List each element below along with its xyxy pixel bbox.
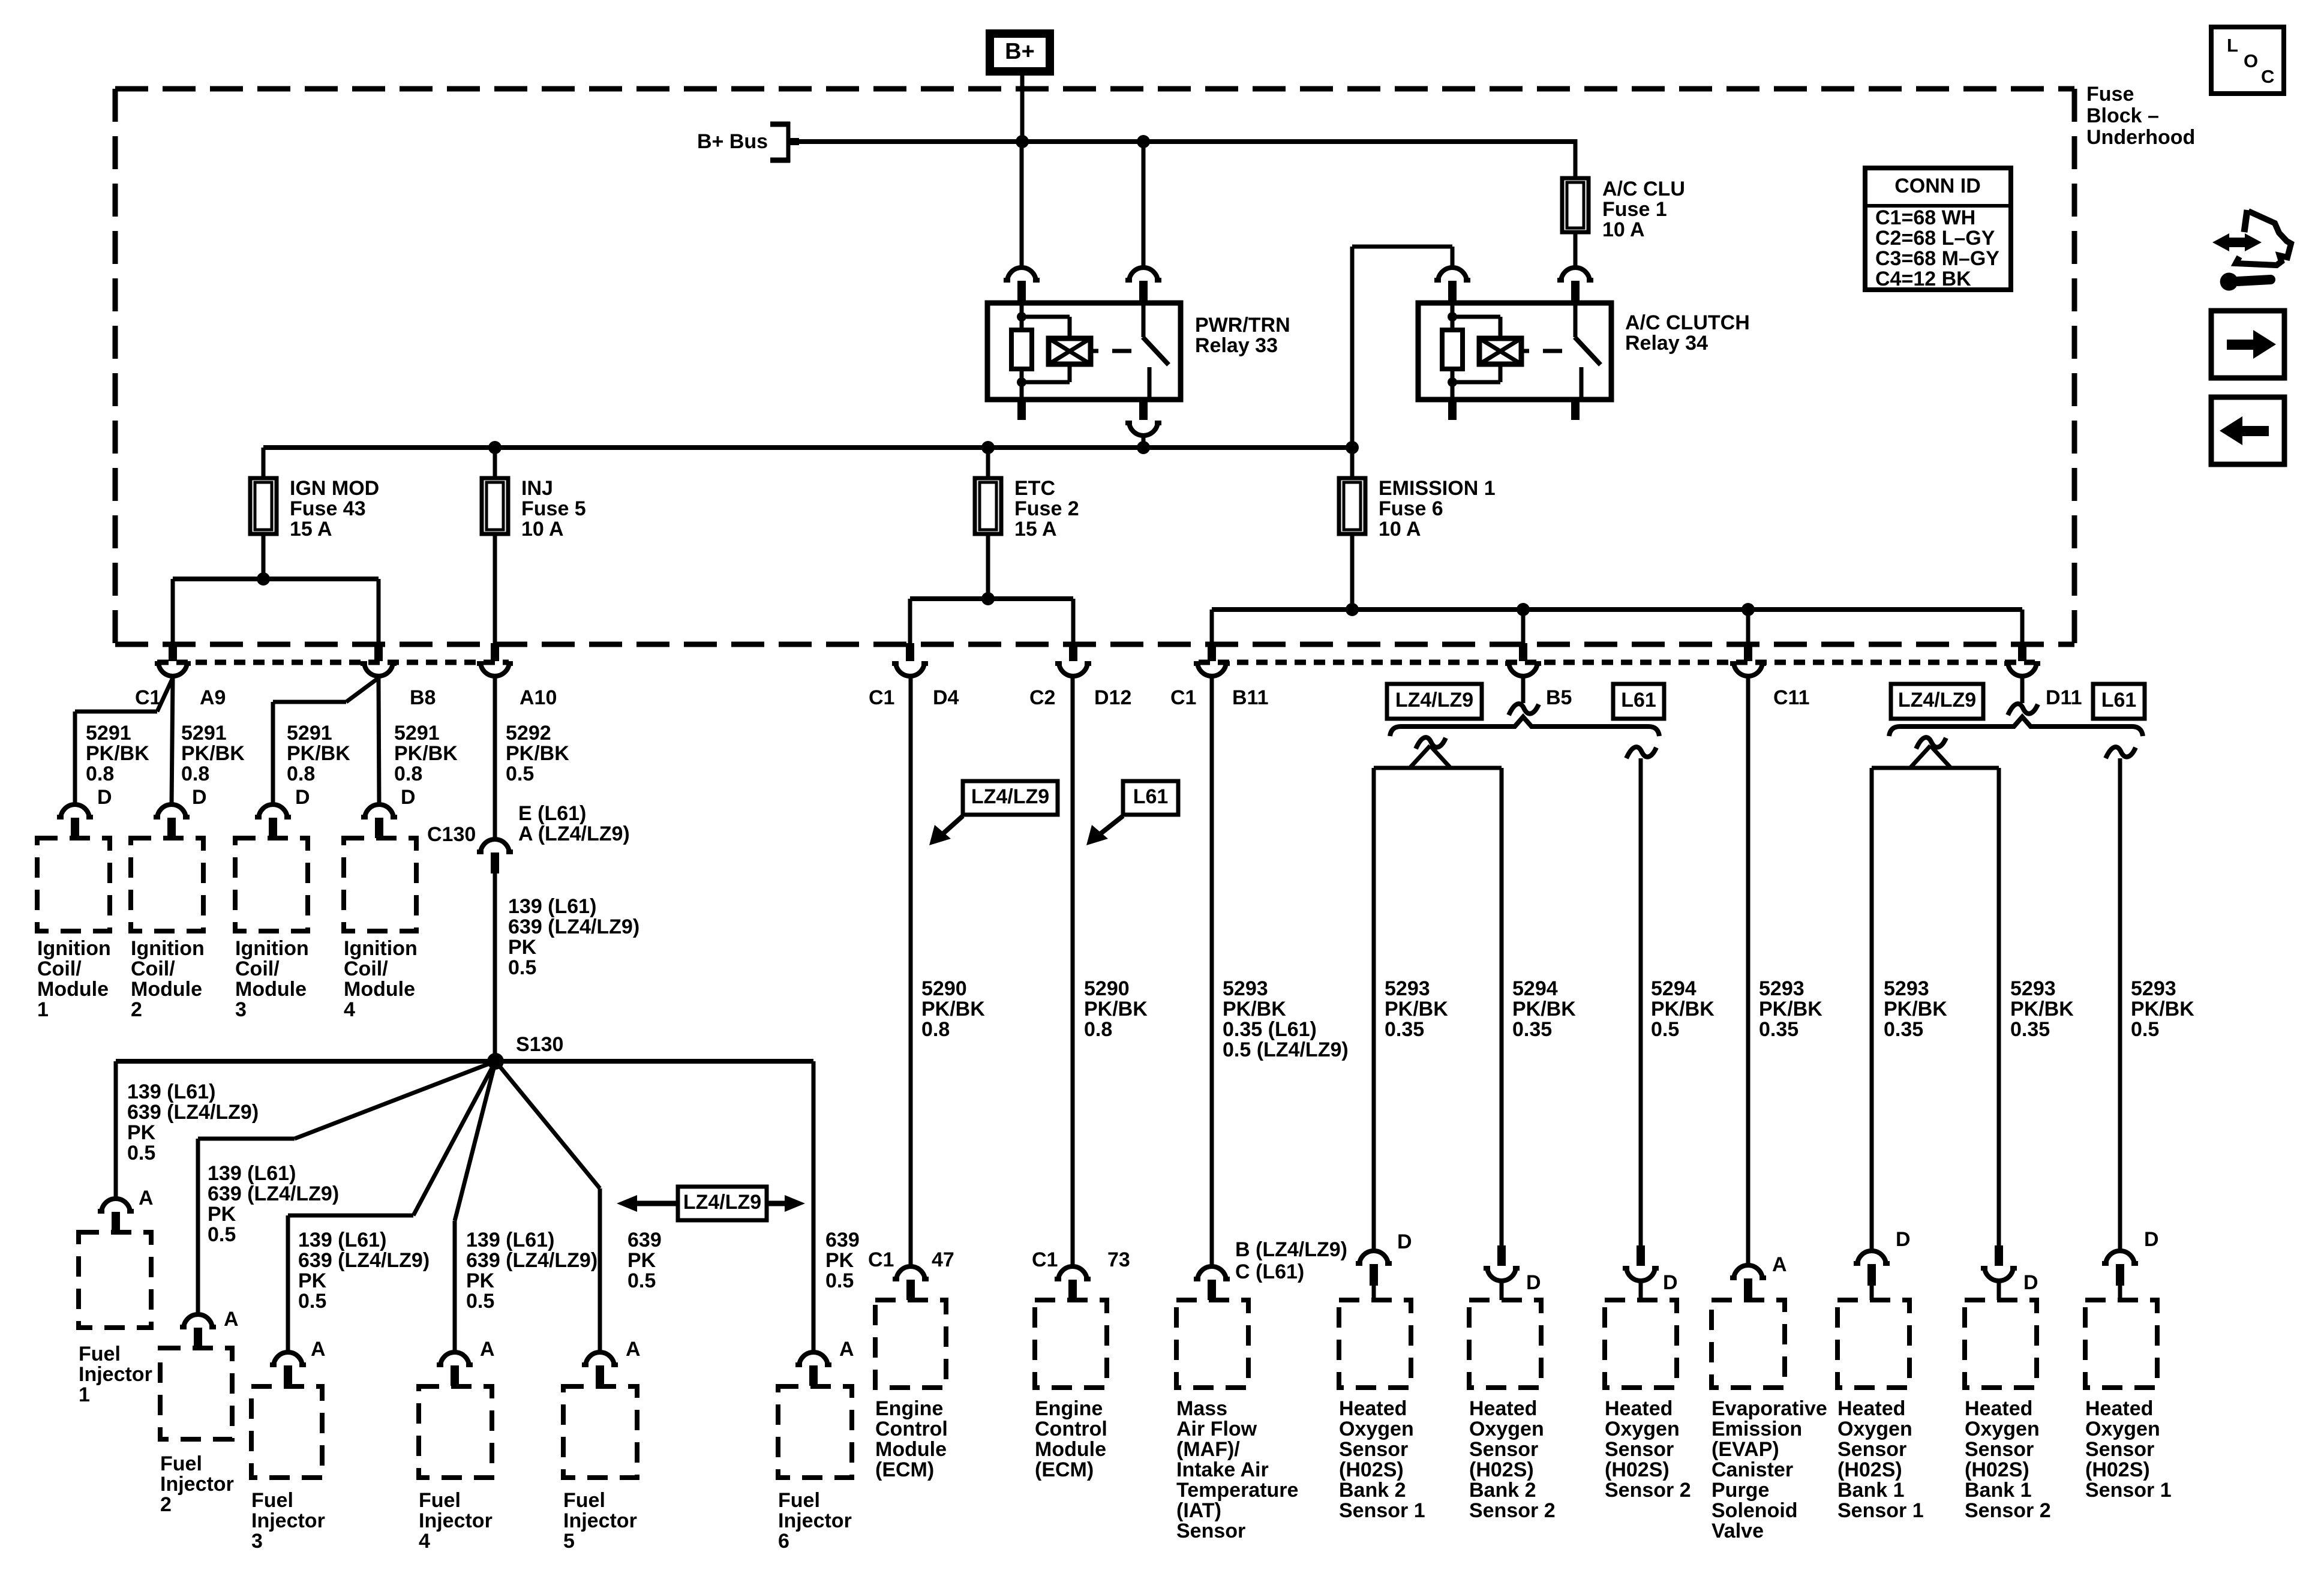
svg-text:5291: 5291: [86, 722, 131, 745]
svg-text:Injector: Injector: [79, 1363, 152, 1386]
svg-text:(EVAP): (EVAP): [1712, 1438, 1779, 1461]
svg-text:PK/BK: PK/BK: [1223, 998, 1286, 1020]
svg-text:PK: PK: [627, 1249, 656, 1272]
svg-text:D4: D4: [933, 686, 959, 709]
svg-text:5290: 5290: [1084, 977, 1130, 1000]
svg-text:LZ4/LZ9: LZ4/LZ9: [971, 785, 1049, 808]
svg-text:6: 6: [778, 1530, 789, 1553]
svg-text:2: 2: [131, 998, 142, 1021]
svg-text:PK/BK: PK/BK: [86, 742, 149, 765]
svg-text:Fuel: Fuel: [563, 1489, 605, 1512]
svg-text:PK: PK: [208, 1203, 236, 1226]
svg-text:0.35: 0.35: [2010, 1018, 2050, 1041]
svg-text:Module: Module: [131, 978, 202, 1001]
svg-text:0.5: 0.5: [2131, 1018, 2159, 1041]
svg-text:PK/BK: PK/BK: [1512, 998, 1576, 1020]
svg-text:5293: 5293: [2131, 977, 2176, 1000]
svg-text:Coil/: Coil/: [37, 957, 82, 980]
svg-text:A: A: [224, 1308, 239, 1331]
svg-text:Sensor 2: Sensor 2: [1965, 1499, 2051, 1522]
svg-text:5292: 5292: [506, 722, 551, 745]
svg-text:C1: C1: [1032, 1248, 1058, 1271]
svg-text:Fuel: Fuel: [160, 1452, 202, 1475]
svg-text:A (LZ4/LZ9): A (LZ4/LZ9): [518, 822, 630, 845]
svg-text:B5: B5: [1546, 686, 1572, 709]
svg-text:1: 1: [37, 998, 49, 1021]
svg-text:B+ Bus: B+ Bus: [697, 130, 768, 153]
svg-text:PK/BK: PK/BK: [2010, 998, 2074, 1020]
svg-text:Bank 1: Bank 1: [1965, 1479, 2032, 1502]
svg-text:139 (L61): 139 (L61): [208, 1162, 296, 1185]
svg-text:C3=68 M–GY: C3=68 M–GY: [1875, 247, 1999, 270]
svg-text:CONN ID: CONN ID: [1894, 175, 1981, 197]
svg-text:PK: PK: [298, 1269, 327, 1292]
svg-text:INJ: INJ: [521, 477, 553, 500]
svg-text:O: O: [2244, 50, 2258, 71]
svg-text:0.35: 0.35: [1512, 1018, 1552, 1041]
svg-text:Coil/: Coil/: [131, 957, 175, 980]
svg-text:Fuel: Fuel: [251, 1489, 293, 1512]
svg-text:639: 639: [825, 1229, 860, 1251]
svg-text:D: D: [401, 786, 416, 809]
svg-text:3: 3: [235, 998, 247, 1021]
svg-text:D: D: [1663, 1271, 1678, 1294]
svg-text:Purge: Purge: [1712, 1479, 1769, 1502]
svg-text:Heated: Heated: [2085, 1397, 2153, 1420]
svg-text:639 (LZ4/LZ9): 639 (LZ4/LZ9): [127, 1101, 259, 1124]
svg-text:(H02S): (H02S): [1837, 1458, 1902, 1481]
svg-text:0.5 (LZ4/LZ9): 0.5 (LZ4/LZ9): [1223, 1038, 1349, 1061]
svg-text:C1: C1: [1170, 686, 1196, 709]
svg-text:C: C: [2261, 66, 2274, 87]
svg-text:D11: D11: [2046, 686, 2082, 709]
svg-text:PK: PK: [127, 1121, 156, 1144]
svg-text:Fuel: Fuel: [79, 1343, 121, 1365]
svg-text:0.35 (L61): 0.35 (L61): [1223, 1018, 1317, 1041]
svg-text:0.5: 0.5: [825, 1269, 854, 1292]
svg-text:A/C CLUTCH: A/C CLUTCH: [1625, 311, 1750, 334]
svg-text:C2=68 L–GY: C2=68 L–GY: [1875, 227, 1995, 250]
svg-text:Ignition: Ignition: [344, 937, 418, 960]
svg-text:A: A: [626, 1338, 641, 1361]
svg-text:1: 1: [79, 1383, 90, 1406]
svg-text:Module: Module: [875, 1438, 947, 1461]
svg-text:5293: 5293: [1759, 977, 1804, 1000]
svg-text:Relay 34: Relay 34: [1625, 332, 1708, 355]
svg-text:B11: B11: [1232, 686, 1269, 709]
svg-text:LZ4/LZ9: LZ4/LZ9: [1395, 689, 1473, 712]
svg-text:Injector: Injector: [563, 1509, 637, 1532]
svg-text:D: D: [2023, 1271, 2038, 1294]
svg-text:S130: S130: [516, 1033, 563, 1056]
svg-text:LZ4/LZ9: LZ4/LZ9: [683, 1191, 761, 1214]
svg-text:Module: Module: [1035, 1438, 1106, 1461]
svg-text:10 A: 10 A: [1602, 218, 1645, 241]
svg-text:Injector: Injector: [419, 1509, 493, 1532]
svg-text:Sensor: Sensor: [1469, 1438, 1538, 1461]
svg-text:PK/BK: PK/BK: [2131, 998, 2194, 1020]
svg-text:Fuel: Fuel: [419, 1489, 461, 1512]
svg-text:Canister: Canister: [1712, 1458, 1793, 1481]
svg-text:PK/BK: PK/BK: [1385, 998, 1448, 1020]
svg-text:L61: L61: [2101, 689, 2137, 712]
svg-text:L61: L61: [1133, 785, 1169, 808]
svg-text:4: 4: [344, 998, 355, 1021]
svg-text:Bank 2: Bank 2: [1339, 1479, 1406, 1502]
svg-text:IGN MOD: IGN MOD: [290, 477, 379, 500]
svg-text:3: 3: [251, 1530, 263, 1553]
svg-text:639 (LZ4/LZ9): 639 (LZ4/LZ9): [208, 1182, 339, 1205]
svg-text:Ignition: Ignition: [131, 937, 205, 960]
svg-text:A9: A9: [200, 686, 226, 709]
svg-text:Heated: Heated: [1837, 1397, 1905, 1420]
svg-text:L: L: [2227, 35, 2238, 56]
svg-text:C1: C1: [135, 686, 161, 709]
svg-text:Ignition: Ignition: [37, 937, 111, 960]
svg-text:PK/BK: PK/BK: [287, 742, 350, 765]
svg-text:5293: 5293: [1884, 977, 1929, 1000]
svg-text:Oxygen: Oxygen: [1339, 1418, 1414, 1440]
svg-text:0.5: 0.5: [506, 763, 534, 785]
svg-text:139 (L61): 139 (L61): [298, 1229, 386, 1251]
svg-text:Oxygen: Oxygen: [2085, 1418, 2160, 1440]
svg-text:0.5: 0.5: [508, 956, 536, 979]
svg-text:Block –: Block –: [2086, 104, 2159, 127]
svg-text:10 A: 10 A: [521, 518, 564, 541]
svg-text:PK/BK: PK/BK: [921, 998, 985, 1020]
svg-text:(H02S): (H02S): [2085, 1458, 2150, 1481]
svg-text:Module: Module: [344, 978, 415, 1001]
svg-text:Coil/: Coil/: [344, 957, 388, 980]
svg-text:Engine: Engine: [875, 1397, 943, 1420]
svg-text:PK/BK: PK/BK: [181, 742, 245, 765]
svg-text:D: D: [2144, 1228, 2159, 1251]
svg-text:0.8: 0.8: [287, 763, 315, 785]
svg-text:Fuse 6: Fuse 6: [1379, 497, 1443, 520]
svg-text:Fuse 1: Fuse 1: [1602, 198, 1667, 221]
svg-text:5291: 5291: [181, 722, 227, 745]
svg-text:C1: C1: [869, 686, 894, 709]
svg-text:Solenoid: Solenoid: [1712, 1499, 1798, 1522]
svg-text:(ECM): (ECM): [875, 1458, 934, 1481]
svg-text:Air Flow: Air Flow: [1176, 1418, 1257, 1440]
svg-text:Sensor: Sensor: [2085, 1438, 2154, 1461]
svg-text:LZ4/LZ9: LZ4/LZ9: [1898, 689, 1976, 712]
svg-text:(H02S): (H02S): [1469, 1458, 1534, 1481]
svg-text:0.5: 0.5: [1651, 1018, 1679, 1041]
svg-text:(H02S): (H02S): [1965, 1458, 2029, 1481]
svg-text:5294: 5294: [1512, 977, 1558, 1000]
svg-text:0.35: 0.35: [1759, 1018, 1798, 1041]
svg-text:A10: A10: [520, 686, 557, 709]
svg-text:PK: PK: [825, 1249, 854, 1272]
svg-text:Sensor 2: Sensor 2: [1469, 1499, 1556, 1522]
svg-text:5294: 5294: [1651, 977, 1697, 1000]
svg-text:Injector: Injector: [778, 1509, 852, 1532]
svg-text:C130: C130: [427, 823, 476, 846]
svg-text:Oxygen: Oxygen: [1965, 1418, 2040, 1440]
svg-text:Sensor 2: Sensor 2: [1605, 1479, 1691, 1502]
svg-text:Control: Control: [1035, 1418, 1107, 1440]
svg-text:C11: C11: [1773, 686, 1810, 709]
svg-text:Oxygen: Oxygen: [1837, 1418, 1912, 1440]
svg-text:5293: 5293: [1385, 977, 1430, 1000]
svg-text:Oxygen: Oxygen: [1605, 1418, 1680, 1440]
svg-text:C1=68 WH: C1=68 WH: [1875, 206, 1975, 229]
svg-text:A/C CLU: A/C CLU: [1602, 178, 1685, 200]
svg-text:Heated: Heated: [1605, 1397, 1673, 1420]
svg-text:139 (L61): 139 (L61): [508, 895, 596, 918]
svg-text:Evaporative: Evaporative: [1712, 1397, 1827, 1420]
svg-text:PK/BK: PK/BK: [506, 742, 569, 765]
svg-text:Bank 2: Bank 2: [1469, 1479, 1536, 1502]
svg-text:Control: Control: [875, 1418, 948, 1440]
svg-text:0.5: 0.5: [127, 1142, 155, 1164]
svg-text:A: A: [311, 1338, 326, 1361]
svg-text:PK/BK: PK/BK: [1651, 998, 1715, 1020]
svg-text:Injector: Injector: [251, 1509, 325, 1532]
svg-text:D: D: [97, 786, 112, 809]
svg-text:0.5: 0.5: [627, 1269, 656, 1292]
svg-text:Fuse 5: Fuse 5: [521, 497, 586, 520]
svg-text:139 (L61): 139 (L61): [466, 1229, 554, 1251]
svg-text:(IAT): (IAT): [1176, 1499, 1221, 1522]
svg-text:C4=12 BK: C4=12 BK: [1875, 268, 1971, 290]
svg-text:Heated: Heated: [1339, 1397, 1407, 1420]
svg-text:D: D: [192, 786, 207, 809]
svg-text:Heated: Heated: [1965, 1397, 2032, 1420]
svg-text:0.5: 0.5: [298, 1290, 326, 1313]
svg-text:A: A: [139, 1187, 154, 1209]
svg-text:C (L61): C (L61): [1235, 1260, 1304, 1283]
svg-text:Relay 33: Relay 33: [1195, 334, 1278, 357]
svg-text:Sensor: Sensor: [1339, 1438, 1408, 1461]
svg-text:Module: Module: [235, 978, 307, 1001]
svg-text:5: 5: [563, 1530, 575, 1553]
svg-text:5293: 5293: [1223, 977, 1268, 1000]
svg-text:Fuse 43: Fuse 43: [290, 497, 366, 520]
svg-text:D12: D12: [1094, 686, 1131, 709]
svg-text:D: D: [1896, 1228, 1911, 1251]
svg-text:(H02S): (H02S): [1339, 1458, 1404, 1481]
svg-text:Intake Air: Intake Air: [1176, 1458, 1269, 1481]
svg-text:2: 2: [160, 1493, 172, 1516]
svg-text:Fuse: Fuse: [2086, 83, 2134, 106]
svg-text:4: 4: [419, 1530, 430, 1553]
svg-text:639 (LZ4/LZ9): 639 (LZ4/LZ9): [298, 1249, 430, 1272]
svg-text:0.8: 0.8: [181, 763, 209, 785]
svg-text:C1: C1: [868, 1248, 894, 1271]
svg-text:Coil/: Coil/: [235, 957, 280, 980]
svg-text:0.8: 0.8: [921, 1018, 950, 1041]
svg-text:0.35: 0.35: [1884, 1018, 1923, 1041]
svg-text:Sensor 1: Sensor 1: [1339, 1499, 1425, 1522]
svg-text:D: D: [1526, 1271, 1541, 1294]
svg-text:639 (LZ4/LZ9): 639 (LZ4/LZ9): [508, 915, 639, 938]
svg-text:Fuel: Fuel: [778, 1489, 820, 1512]
svg-text:(H02S): (H02S): [1605, 1458, 1670, 1481]
svg-text:5291: 5291: [394, 722, 440, 745]
svg-text:D: D: [295, 786, 310, 809]
svg-text:PK/BK: PK/BK: [1084, 998, 1148, 1020]
svg-text:639: 639: [627, 1229, 662, 1251]
svg-text:Oxygen: Oxygen: [1469, 1418, 1544, 1440]
svg-text:Sensor: Sensor: [1176, 1520, 1245, 1542]
svg-text:PK/BK: PK/BK: [1759, 998, 1822, 1020]
svg-text:15 A: 15 A: [290, 518, 332, 541]
svg-text:Sensor 1: Sensor 1: [2085, 1479, 2172, 1502]
svg-text:0.8: 0.8: [86, 763, 114, 785]
svg-text:5290: 5290: [921, 977, 967, 1000]
svg-text:0.35: 0.35: [1385, 1018, 1424, 1041]
svg-text:ETC: ETC: [1014, 477, 1055, 500]
svg-text:Ignition: Ignition: [235, 937, 309, 960]
svg-text:Module: Module: [37, 978, 109, 1001]
svg-text:47: 47: [932, 1248, 954, 1271]
svg-text:Temperature: Temperature: [1176, 1479, 1298, 1502]
svg-text:0.5: 0.5: [208, 1223, 236, 1246]
svg-text:Heated: Heated: [1469, 1397, 1537, 1420]
svg-text:Sensor: Sensor: [1965, 1438, 2034, 1461]
svg-text:139 (L61): 139 (L61): [127, 1080, 215, 1103]
svg-text:PK: PK: [508, 936, 537, 959]
svg-text:0.5: 0.5: [466, 1290, 494, 1313]
svg-text:C2: C2: [1029, 686, 1055, 709]
svg-text:Emission: Emission: [1712, 1418, 1802, 1440]
svg-text:(MAF)/: (MAF)/: [1176, 1438, 1240, 1461]
svg-text:5293: 5293: [2010, 977, 2056, 1000]
svg-text:E (L61): E (L61): [518, 802, 586, 825]
svg-text:PWR/TRN: PWR/TRN: [1195, 314, 1290, 337]
svg-text:0.8: 0.8: [1084, 1018, 1112, 1041]
svg-text:L61: L61: [1621, 689, 1656, 712]
svg-text:Injector: Injector: [160, 1473, 234, 1496]
svg-text:10 A: 10 A: [1379, 518, 1421, 541]
svg-text:D: D: [1397, 1230, 1412, 1253]
svg-text:A: A: [480, 1338, 495, 1361]
svg-text:Mass: Mass: [1176, 1397, 1227, 1420]
svg-text:Sensor: Sensor: [1605, 1438, 1674, 1461]
svg-text:A: A: [839, 1338, 854, 1361]
svg-text:639 (LZ4/LZ9): 639 (LZ4/LZ9): [466, 1249, 597, 1272]
svg-text:Engine: Engine: [1035, 1397, 1103, 1420]
svg-text:Sensor 1: Sensor 1: [1837, 1499, 1924, 1522]
svg-text:Underhood: Underhood: [2086, 126, 2195, 149]
svg-text:PK: PK: [466, 1269, 495, 1292]
svg-text:A: A: [1772, 1253, 1787, 1276]
svg-text:73: 73: [1107, 1248, 1130, 1271]
svg-text:15 A: 15 A: [1014, 518, 1057, 541]
svg-text:B (LZ4/LZ9): B (LZ4/LZ9): [1235, 1238, 1347, 1261]
svg-text:Bank 1: Bank 1: [1837, 1479, 1905, 1502]
svg-text:0.8: 0.8: [394, 763, 422, 785]
svg-text:Valve: Valve: [1712, 1520, 1764, 1542]
svg-text:(ECM): (ECM): [1035, 1458, 1094, 1481]
svg-text:EMISSION 1: EMISSION 1: [1379, 477, 1496, 500]
svg-text:B8: B8: [410, 686, 436, 709]
svg-text:PK/BK: PK/BK: [1884, 998, 1947, 1020]
svg-text:5291: 5291: [287, 722, 332, 745]
svg-text:Fuse 2: Fuse 2: [1014, 497, 1079, 520]
svg-text:Sensor: Sensor: [1837, 1438, 1906, 1461]
svg-text:PK/BK: PK/BK: [394, 742, 458, 765]
svg-text:B+: B+: [1005, 39, 1035, 64]
